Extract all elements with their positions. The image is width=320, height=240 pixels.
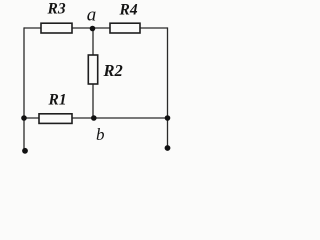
svg-text:R1: R1	[48, 92, 67, 109]
svg-text:a: a	[87, 5, 97, 26]
svg-text:b: b	[96, 125, 105, 144]
svg-text:R2: R2	[103, 61, 123, 80]
svg-text:R4: R4	[119, 2, 138, 19]
svg-text:R3: R3	[47, 1, 66, 18]
